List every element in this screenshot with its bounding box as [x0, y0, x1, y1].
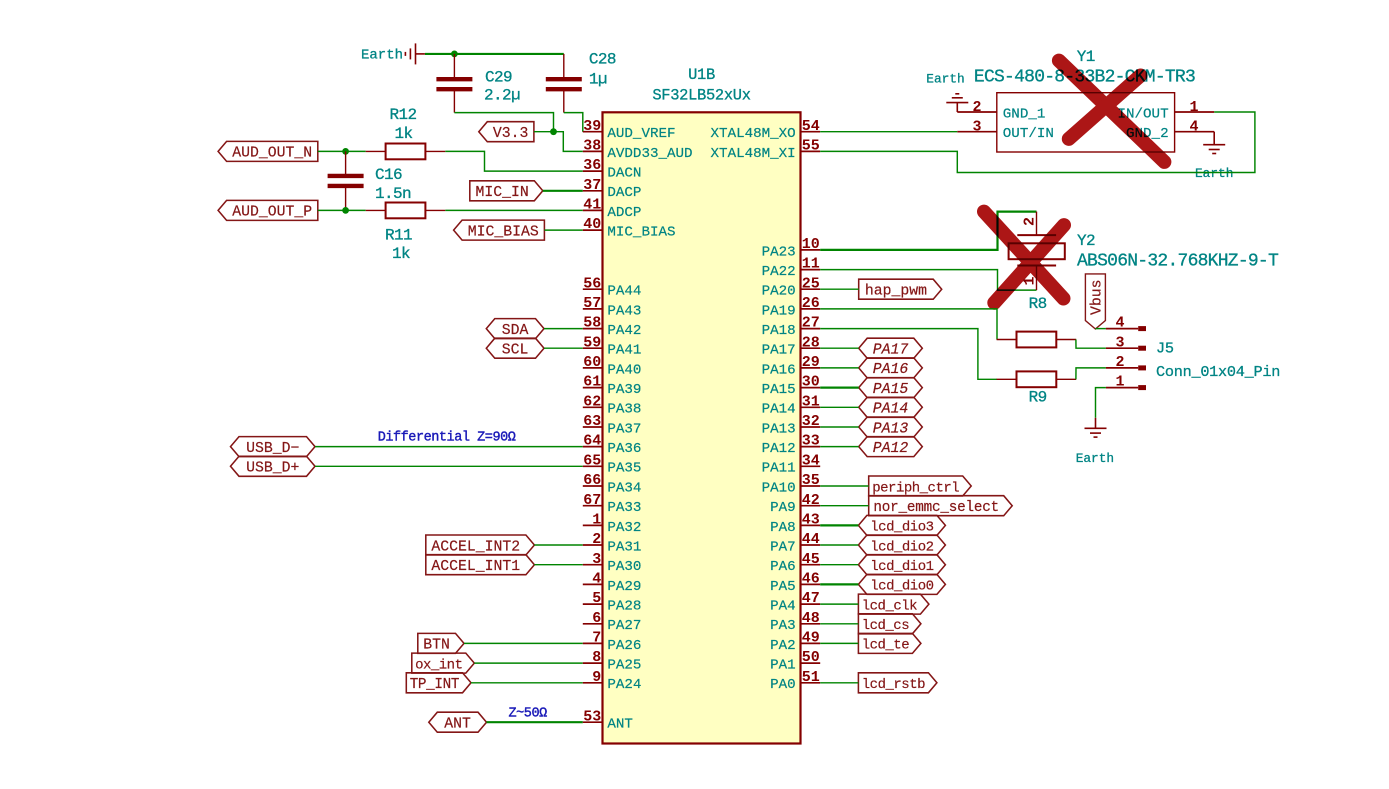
capacitor C16	[328, 151, 364, 210]
svg-text:AUD_OUT_P: AUD_OUT_P	[232, 205, 312, 221]
U1B pin 59 PA41	[583, 334, 642, 358]
wire PA10 pin35 to periph_ctrl	[820, 485, 869, 487]
svg-text:ADCP: ADCP	[607, 205, 641, 221]
svg-text:PA40: PA40	[607, 362, 641, 378]
svg-text:R8: R8	[1029, 295, 1047, 313]
wire lcd_clk wire	[820, 603, 858, 605]
global label PA17	[859, 338, 923, 358]
global label hap_pwm	[859, 279, 942, 299]
U1B pin 47 PA4	[770, 590, 820, 614]
ground Earth at Y1 pin 4 lead	[1213, 132, 1215, 145]
svg-text:Earth: Earth	[361, 47, 403, 63]
U1B pin 58 PA42	[583, 315, 642, 339]
svg-text:lcd_rstb: lcd_rstb	[862, 677, 925, 693]
global label PA13	[859, 417, 923, 437]
svg-text:periph_ctrl: periph_ctrl	[872, 480, 959, 496]
svg-text:PA2: PA2	[770, 638, 796, 654]
wire MIC_IN to pin 37 DACP	[543, 190, 583, 192]
svg-text:SF32LB52xUx: SF32LB52xUx	[652, 87, 750, 105]
wire lcd_te wire	[820, 642, 858, 644]
svg-text:51: 51	[802, 669, 820, 686]
svg-text:Y2: Y2	[1077, 232, 1095, 250]
wire XTAL48M_XO pin54 to Y1 pin3	[820, 131, 957, 133]
svg-text:lcd_dio1: lcd_dio1	[870, 559, 933, 575]
U1B pin 7 PA26	[583, 630, 642, 654]
global label lcd_dio1	[858, 555, 945, 575]
global label USB_D+	[231, 456, 316, 476]
U1B pin 35 PA10	[762, 472, 821, 496]
resistor R11	[366, 203, 446, 219]
svg-text:SCL: SCL	[502, 343, 529, 359]
U1B pin 54 XTAL48M_XO	[711, 118, 821, 142]
wire lcd_dio0 wire	[820, 583, 858, 585]
svg-text:58: 58	[583, 315, 601, 332]
crystal Y1 pin 3 OUT/IN	[957, 119, 1054, 143]
wire Earth net top: ground to C29/C28 top	[425, 53, 564, 55]
svg-text:3: 3	[592, 551, 601, 568]
svg-text:hap_pwm: hap_pwm	[865, 284, 927, 300]
svg-text:nor_emmc_select: nor_emmc_select	[873, 500, 999, 516]
wire PA13 wire	[820, 426, 859, 428]
svg-text:40: 40	[583, 216, 601, 233]
svg-text:1.5n: 1.5n	[375, 185, 411, 203]
U1B pin 34 PA11	[762, 452, 821, 476]
wire R11 to pin 41 ADCP	[445, 209, 583, 211]
global label PA16	[859, 358, 923, 378]
DNP cross over Y1	[1059, 61, 1165, 162]
svg-text:PA33: PA33	[607, 500, 641, 516]
U1B pin 36 DACN	[583, 157, 642, 181]
U1B pin 10 PA23	[762, 236, 821, 260]
svg-text:PA31: PA31	[607, 539, 641, 555]
junction AUD_OUT_P / C16 bottom	[342, 207, 349, 214]
svg-text:PA23: PA23	[762, 244, 796, 260]
svg-text:PA14: PA14	[873, 402, 909, 418]
svg-text:PA41: PA41	[607, 343, 641, 359]
svg-text:26: 26	[802, 295, 820, 312]
U1B pin 56 PA44	[583, 275, 642, 299]
svg-text:TP_INT: TP_INT	[410, 677, 460, 693]
global label ANT	[429, 712, 487, 732]
junction AUD_OUT_N / C16 top	[342, 148, 349, 155]
U1B pin 9 PA24	[583, 669, 642, 693]
ground Earth at Y1 pin 2 lead	[956, 103, 958, 112]
U1B pin 42 PA9	[770, 492, 820, 516]
svg-text:64: 64	[583, 433, 601, 450]
wire Vbus to J5 pin 4	[1095, 328, 1106, 330]
svg-text:ox_int: ox_int	[415, 657, 462, 673]
svg-text:PA18: PA18	[762, 323, 796, 339]
svg-text:Vbus: Vbus	[1090, 279, 1106, 315]
wire R8 to J5 pin 3	[1076, 340, 1106, 349]
wire SCL to pin 59 PA41	[544, 347, 583, 349]
ground top-left Earth symbol lead	[416, 53, 425, 55]
U1B pin 67 PA33	[583, 492, 642, 516]
U1B pin 41 ADCP	[583, 197, 642, 221]
svg-text:PA32: PA32	[607, 520, 641, 536]
svg-text:PA43: PA43	[607, 303, 641, 319]
U1B pin 27 PA18	[762, 315, 821, 339]
svg-text:PA38: PA38	[607, 402, 641, 418]
U1B pin 43 PA8	[770, 512, 820, 536]
svg-text:ACCEL_INT1: ACCEL_INT1	[431, 559, 520, 575]
svg-text:Differential Z=90Ω: Differential Z=90Ω	[378, 430, 516, 445]
svg-text:V3.3: V3.3	[493, 126, 529, 142]
svg-text:43: 43	[802, 512, 820, 529]
U1B pin 3 PA30	[583, 551, 642, 575]
global label TP_INT	[406, 673, 471, 693]
svg-text:5: 5	[592, 590, 601, 607]
svg-text:XTAL48M_XI: XTAL48M_XI	[711, 146, 796, 162]
svg-text:ACCEL_INT2: ACCEL_INT2	[431, 539, 520, 555]
svg-text:4: 4	[1189, 119, 1198, 136]
svg-text:PA16: PA16	[762, 362, 796, 378]
wire R12 to pin 36 DACN	[445, 151, 583, 171]
wire AUD_OUT_P to R11	[318, 209, 366, 211]
wire C28 bottom to pin 39	[564, 113, 583, 132]
U1B pin 6 PA27	[583, 610, 642, 634]
svg-text:32: 32	[802, 413, 820, 430]
svg-text:2: 2	[1022, 217, 1039, 226]
svg-text:2.2µ: 2.2µ	[484, 87, 520, 105]
svg-text:R11: R11	[385, 227, 412, 245]
svg-text:PA27: PA27	[607, 618, 641, 634]
junction Earth wire / C29	[451, 51, 458, 58]
U1B pin 37 DACP	[583, 177, 642, 201]
U1B pin 26 PA19	[762, 295, 821, 319]
svg-text:PA44: PA44	[607, 284, 641, 300]
wire MIC_BIAS to pin 40	[544, 229, 582, 231]
U1B pin 48 PA3	[770, 610, 820, 634]
wire PA16 wire	[820, 367, 859, 369]
svg-text:25: 25	[802, 275, 820, 292]
global label lcd_clk	[858, 594, 929, 614]
global label PA14	[859, 397, 923, 417]
IC U1B body	[603, 112, 801, 743]
svg-text:lcd_dio0: lcd_dio0	[870, 579, 933, 595]
svg-text:PA30: PA30	[607, 559, 641, 575]
svg-text:PA19: PA19	[762, 303, 796, 319]
svg-text:PA42: PA42	[607, 323, 641, 339]
svg-text:PA7: PA7	[770, 539, 796, 555]
crystal Y1 pin 4 GND_2	[1126, 119, 1214, 143]
svg-text:8: 8	[592, 649, 601, 666]
svg-text:lcd_te: lcd_te	[862, 638, 910, 654]
svg-text:AUD_VREF: AUD_VREF	[607, 126, 675, 142]
global label nor_emmc_select	[869, 496, 1013, 516]
wire PA17 wire	[820, 347, 859, 349]
svg-text:PA25: PA25	[607, 658, 641, 674]
J5 pin 2	[1106, 354, 1146, 371]
wire PA20 pin25 to hap_pwm	[820, 288, 859, 290]
wire PA23 pin10 to Y2 pin2	[820, 212, 1036, 250]
svg-text:USB_D−: USB_D−	[246, 441, 299, 457]
U1B pin 65 PA35	[583, 452, 642, 476]
U1B pin 57 PA43	[583, 295, 642, 319]
svg-text:R9: R9	[1029, 388, 1047, 406]
svg-text:36: 36	[583, 157, 601, 174]
svg-text:PA1: PA1	[770, 658, 796, 674]
wire lcd_dio2 wire	[820, 544, 858, 546]
svg-text:44: 44	[802, 531, 820, 548]
svg-text:49: 49	[802, 630, 820, 647]
svg-text:67: 67	[583, 492, 601, 509]
svg-text:PA26: PA26	[607, 638, 641, 654]
svg-text:66: 66	[583, 472, 601, 489]
wire J5 pin1 to ground	[1096, 388, 1106, 418]
svg-text:AUD_OUT_N: AUD_OUT_N	[232, 146, 312, 162]
global label ACCEL_INT1	[426, 555, 535, 575]
svg-text:C16: C16	[375, 166, 402, 184]
capacitor C28	[546, 54, 582, 113]
global label MIC_IN	[470, 181, 543, 201]
svg-text:34: 34	[802, 452, 820, 469]
U1B pin 8 PA25	[583, 649, 642, 673]
wire BTN to pin 7 PA26	[464, 642, 583, 644]
svg-text:PA14: PA14	[762, 402, 796, 418]
svg-text:37: 37	[583, 177, 601, 194]
ground J5 Earth	[1085, 428, 1107, 437]
svg-text:38: 38	[583, 138, 601, 155]
global label USB_D-	[231, 437, 316, 457]
svg-text:55: 55	[802, 138, 820, 155]
svg-text:4: 4	[1115, 315, 1124, 332]
U1B pin 39 AUD_VREF	[583, 118, 676, 142]
U1B pin 29 PA16	[762, 354, 821, 378]
global label lcd_dio3	[858, 515, 945, 535]
svg-text:7: 7	[592, 630, 601, 647]
svg-text:BTN: BTN	[423, 638, 450, 654]
svg-text:R12: R12	[389, 106, 416, 124]
svg-text:USB_D+: USB_D+	[246, 461, 299, 477]
wire lcd_dio3 wire	[820, 524, 858, 526]
svg-text:lcd_cs: lcd_cs	[862, 618, 910, 634]
global label AUD_OUT_P	[218, 200, 318, 220]
wire USB_D+ to pin 65 PA35	[315, 465, 583, 467]
global label periph_ctrl	[869, 476, 972, 496]
svg-text:11: 11	[802, 256, 820, 273]
svg-text:2: 2	[592, 531, 601, 548]
wire V3.3 to junction	[534, 131, 554, 133]
wire lcd_cs wire	[820, 623, 858, 625]
svg-text:PA17: PA17	[873, 343, 909, 359]
svg-text:PA9: PA9	[770, 500, 796, 516]
svg-text:9: 9	[592, 669, 601, 686]
svg-text:PA12: PA12	[873, 441, 909, 457]
svg-text:1: 1	[592, 512, 601, 529]
global label PA12	[859, 437, 923, 457]
svg-text:46: 46	[802, 571, 820, 588]
wire PA14 wire	[820, 406, 859, 408]
svg-text:PA15: PA15	[873, 382, 909, 398]
wire PA0 pin51 to lcd_rstb	[820, 682, 858, 684]
svg-text:MIC_IN: MIC_IN	[475, 185, 528, 201]
U1B pin 63 PA37	[583, 413, 642, 437]
svg-text:Y1: Y1	[1077, 48, 1095, 66]
global label lcd_te	[858, 633, 921, 653]
svg-text:XTAL48M_XO: XTAL48M_XO	[711, 126, 796, 142]
global label BTN	[418, 633, 464, 653]
U1B pin 45 PA6	[770, 551, 820, 575]
svg-text:39: 39	[583, 118, 601, 135]
crystal Y2	[1009, 212, 1065, 291]
svg-text:61: 61	[583, 374, 601, 391]
svg-text:30: 30	[802, 374, 820, 391]
svg-text:DACP: DACP	[607, 185, 641, 201]
svg-text:J5: J5	[1156, 339, 1174, 357]
U1B pin 50 PA1	[770, 649, 820, 673]
svg-text:OUT/IN: OUT/IN	[1003, 126, 1054, 142]
svg-text:PA12: PA12	[762, 441, 796, 457]
U1B pin 46 PA5	[770, 571, 820, 595]
U1B pin 25 PA20	[762, 275, 821, 299]
svg-text:54: 54	[802, 118, 820, 135]
svg-text:SDA: SDA	[502, 323, 529, 339]
wire lcd_dio1 wire	[820, 564, 858, 566]
wire ACCEL_INT1 to pin 3 PA30	[534, 564, 582, 566]
svg-text:1k: 1k	[394, 125, 412, 143]
global label V3.3	[479, 122, 534, 142]
svg-text:65: 65	[583, 452, 601, 469]
global label lcd_cs	[858, 614, 921, 634]
svg-text:2: 2	[1115, 354, 1124, 371]
resistor R8	[997, 332, 1077, 348]
svg-text:PA6: PA6	[770, 559, 796, 575]
svg-text:AVDD33_AUD: AVDD33_AUD	[607, 146, 692, 162]
U1B pin 11 PA22	[762, 256, 821, 280]
U1B pin 64 PA36	[583, 433, 642, 457]
svg-text:PA17: PA17	[762, 343, 796, 359]
global label lcd_dio0	[858, 574, 945, 594]
svg-text:57: 57	[583, 295, 601, 312]
svg-text:PA0: PA0	[770, 677, 796, 693]
U1B pin 5 PA28	[583, 590, 642, 614]
wire ox_int to pin 8 PA25	[474, 662, 583, 664]
svg-text:PA37: PA37	[607, 421, 641, 437]
svg-text:59: 59	[583, 334, 601, 351]
svg-text:Earth: Earth	[1195, 166, 1233, 181]
wire XTAL48M_XI pin55 to Y1 pin1	[820, 112, 1255, 173]
svg-text:Earth: Earth	[1076, 451, 1114, 466]
svg-text:48: 48	[802, 610, 820, 627]
svg-text:Earth: Earth	[926, 72, 964, 87]
svg-text:3: 3	[972, 119, 981, 136]
ground J5 Earth lead	[1095, 418, 1097, 429]
svg-text:45: 45	[802, 551, 820, 568]
wire TP_INT to pin 9 PA24	[471, 682, 583, 684]
svg-text:PA24: PA24	[607, 677, 641, 693]
svg-text:PA13: PA13	[762, 421, 796, 437]
svg-text:lcd_clk: lcd_clk	[862, 598, 917, 614]
global label AUD_OUT_N	[218, 141, 318, 161]
J5 pin 1	[1106, 374, 1146, 391]
wire PA22 pin11 to Y2 pin1	[820, 270, 1036, 291]
J5 pin 4	[1106, 315, 1146, 332]
crystal Y1 body	[997, 93, 1175, 152]
DNP cross over Y2	[984, 212, 1064, 303]
svg-text:PA29: PA29	[607, 579, 641, 595]
svg-text:PA13: PA13	[873, 421, 909, 437]
U1B pin 55 XTAL48M_XI	[711, 138, 821, 162]
svg-text:53: 53	[583, 708, 601, 725]
global label SCL	[486, 338, 544, 358]
U1B pin 32 PA13	[762, 413, 821, 437]
global label ox_int	[412, 653, 475, 673]
U1B pin 51 PA0	[770, 669, 820, 693]
svg-text:Z~50Ω: Z~50Ω	[509, 707, 548, 722]
global label SDA	[486, 319, 544, 339]
svg-text:PA15: PA15	[762, 382, 796, 398]
svg-text:27: 27	[802, 315, 820, 332]
wire SDA to pin 58 PA42	[544, 328, 583, 330]
svg-text:ABS06N-32.768KHZ-9-T: ABS06N-32.768KHZ-9-T	[1077, 251, 1279, 271]
svg-text:PA11: PA11	[762, 461, 796, 477]
svg-text:60: 60	[583, 354, 601, 371]
svg-text:MIC_BIAS: MIC_BIAS	[607, 225, 675, 241]
svg-text:35: 35	[802, 472, 820, 489]
J5 pin 3	[1106, 334, 1146, 351]
svg-text:PA22: PA22	[762, 264, 796, 280]
svg-text:PA34: PA34	[607, 480, 641, 496]
U1B pin 33 PA12	[762, 433, 821, 457]
svg-text:41: 41	[583, 197, 601, 214]
global label Vbus (vertical)	[1085, 274, 1105, 329]
svg-text:PA10: PA10	[762, 480, 796, 496]
svg-text:PA35: PA35	[607, 461, 641, 477]
svg-text:3: 3	[1115, 334, 1124, 351]
global label PA15	[859, 378, 923, 398]
U1B pin 28 PA17	[762, 334, 821, 358]
ground top-left Earth	[405, 43, 415, 64]
svg-text:6: 6	[592, 610, 601, 627]
wire ACCEL_INT2 to pin 2 PA31	[534, 544, 582, 546]
svg-text:DACN: DACN	[607, 166, 641, 182]
wire AUD_OUT_N to R12	[318, 150, 366, 152]
svg-text:ANT: ANT	[607, 717, 633, 733]
svg-text:PA4: PA4	[770, 599, 796, 615]
svg-text:lcd_dio3: lcd_dio3	[870, 520, 933, 536]
U1B pin 1 PA32	[583, 512, 642, 536]
svg-text:C28: C28	[589, 51, 616, 69]
svg-text:50: 50	[802, 649, 820, 666]
svg-text:29: 29	[802, 354, 820, 371]
U1B pin 60 PA40	[583, 354, 642, 378]
svg-text:1k: 1k	[392, 245, 410, 263]
svg-text:47: 47	[802, 590, 820, 607]
svg-text:GND_1: GND_1	[1003, 106, 1046, 122]
global label MIC_BIAS	[454, 220, 545, 240]
wire R9 to J5 pin 2	[1076, 368, 1106, 379]
svg-text:PA36: PA36	[607, 441, 641, 457]
svg-text:2: 2	[972, 99, 981, 116]
svg-text:PA5: PA5	[770, 579, 796, 595]
wire junction to pin 38 AVDD33_AUD	[554, 132, 583, 152]
wire PA19 pin26 to R8	[820, 309, 997, 340]
capacitor C29	[436, 54, 472, 113]
svg-text:63: 63	[583, 413, 601, 430]
U1B pin 38 AVDD33_AUD	[583, 138, 693, 162]
svg-text:PA28: PA28	[607, 599, 641, 615]
U1B pin 30 PA15	[762, 374, 821, 398]
U1B pin 66 PA34	[583, 472, 642, 496]
U1B pin 4 PA29	[583, 571, 642, 595]
global label ACCEL_INT2	[426, 535, 535, 555]
svg-text:lcd_dio2: lcd_dio2	[870, 539, 933, 555]
U1B pin 53 ANT	[583, 708, 633, 732]
svg-text:33: 33	[802, 433, 820, 450]
U1B pin 40 MIC_BIAS	[583, 216, 676, 240]
svg-text:ANT: ANT	[444, 717, 471, 733]
